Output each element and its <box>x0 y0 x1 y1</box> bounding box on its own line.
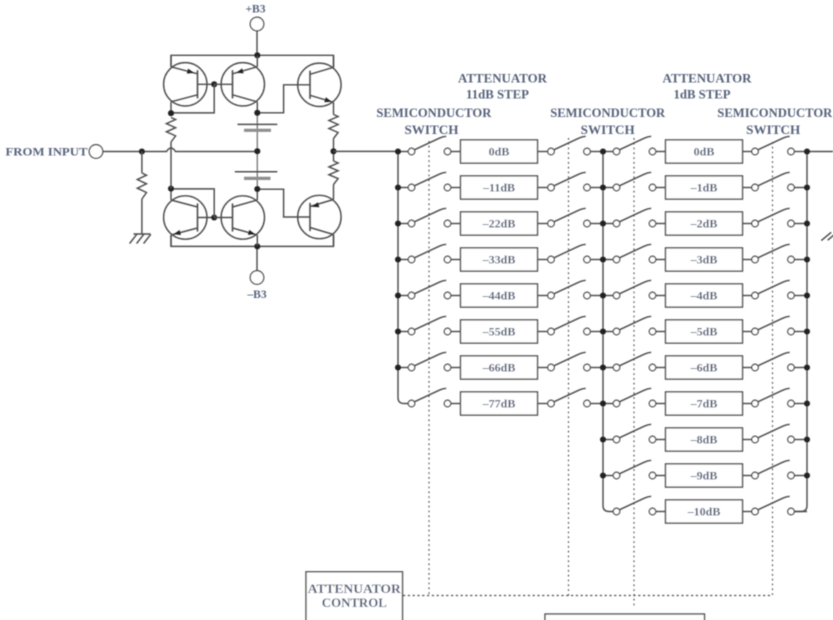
semiconductor switch col1 row4 right <box>548 244 591 263</box>
wire Q5 collector up <box>256 189 258 200</box>
wire col2 row9 pad out <box>743 439 752 441</box>
node left chain bottom <box>168 186 174 192</box>
wire col2 row9 to next bus <box>794 439 807 441</box>
semiconductor switch col1 row2 right <box>548 172 591 191</box>
transistor Q1 <box>164 63 207 106</box>
node bus3 row4 junction <box>804 256 810 262</box>
wire col2 row4 to pad <box>656 259 666 261</box>
wire col1 row4 to pad <box>451 259 461 261</box>
wire col2 row5 pad out <box>743 295 752 297</box>
transistor Q6 <box>298 195 341 238</box>
node left chain top <box>168 110 174 116</box>
wire col2 row1 pad out <box>743 151 752 153</box>
semiconductor switch col2 row11 right <box>752 496 795 515</box>
node battery bottom junction <box>254 186 260 192</box>
wire +B3 to top rail <box>256 31 258 56</box>
semiconductor switch col2 row2 left <box>613 172 656 191</box>
battery B2 positive plate <box>235 171 277 173</box>
semiconductor switch col2 row9 left <box>613 424 656 443</box>
svg-text:–9dB: –9dB <box>690 469 718 483</box>
block bottom partial box <box>545 614 705 620</box>
node bottom base junction <box>211 214 217 220</box>
wire col1 row1 to next bus <box>590 151 603 153</box>
svg-text:–3dB: –3dB <box>690 253 718 267</box>
wire col2 row5 bus stub <box>603 295 613 297</box>
wire resistor to ground <box>141 199 143 234</box>
svg-text:–6dB: –6dB <box>690 361 718 375</box>
node bus3 row7 junction <box>804 364 810 370</box>
wire col2 row9 to pad <box>656 439 666 441</box>
attenuator pad col2 &#8211;2dB <box>666 212 743 235</box>
node col1 row7 bus junction <box>395 364 401 370</box>
svg-text:–4dB: –4dB <box>690 289 718 303</box>
wire col2 row6 to pad <box>656 331 666 333</box>
wire col2 row11 to pad <box>656 511 666 513</box>
node col2 row9 bus junction <box>600 436 606 442</box>
wire col2 row2 to pad <box>656 187 666 189</box>
label ATTENUATOR 11dB STEP <box>458 70 548 101</box>
svg-text:–66dB: –66dB <box>482 361 516 375</box>
wire col2 row4 bus stub <box>603 259 613 261</box>
resistor input shunt <box>137 173 146 199</box>
wire col1 row7 to pad <box>451 367 461 369</box>
node bus3 row5 junction <box>804 292 810 298</box>
svg-text:FROM INPUT: FROM INPUT <box>6 145 88 159</box>
continuation break mark <box>821 232 833 240</box>
svg-text:–8dB: –8dB <box>690 433 718 447</box>
wire Q5 emitter to rail <box>256 235 258 246</box>
node col2 row6 bus junction <box>600 328 606 334</box>
semiconductor switch col2 row3 right <box>752 208 795 227</box>
semiconductor switch col1 row1 right <box>548 136 591 155</box>
node bus3 row10 junction <box>804 472 810 478</box>
svg-text:–2dB: –2dB <box>690 217 718 231</box>
node col2 row1 bus junction <box>600 148 606 154</box>
attenuator pad col2 &#8211;8dB <box>666 428 743 451</box>
wire col2 row8 to next bus <box>794 403 807 405</box>
node bus3 row8 junction <box>804 400 810 406</box>
semiconductor switch col2 row1 right <box>752 136 795 155</box>
attenuator pad col2 &#8211;3dB <box>666 248 743 271</box>
wire col1 row3 pad out <box>538 223 548 225</box>
wire col2 row8 pad out <box>743 403 752 405</box>
resistor output lower <box>329 161 338 185</box>
wire col2 row3 pad out <box>743 223 752 225</box>
wire col2 row6 pad out <box>743 331 752 333</box>
wire Q1 emitter to rail <box>170 56 172 67</box>
node bottom rail junction <box>254 243 260 249</box>
wire col1 row7 to next bus <box>590 367 603 369</box>
control line dashed 3 <box>633 138 635 606</box>
wire Q2 collector down <box>256 102 258 113</box>
svg-text:SWITCH: SWITCH <box>581 122 635 137</box>
control line dashed 2 <box>568 138 570 596</box>
node input junction <box>139 148 145 154</box>
attenuator pad col1 &#8211;77dB <box>461 392 538 415</box>
wire col1 row5 pad out <box>538 295 548 297</box>
attenuator pad col2 &#8211;9dB <box>666 464 743 487</box>
wire col1 row5 bus stub <box>398 295 408 297</box>
control line dashed horizontal <box>403 595 773 597</box>
svg-text:–77dB: –77dB <box>482 397 516 411</box>
semiconductor switch col2 row1 left <box>613 136 656 155</box>
svg-text:–B3: –B3 <box>246 289 266 301</box>
battery B1 negative plate <box>244 129 271 132</box>
node battery top junction <box>254 110 260 116</box>
attenuator pad col2 &#8211;1dB <box>666 176 743 199</box>
wire col1 row1 pad out <box>538 151 548 153</box>
node col1 row1 bus junction <box>395 148 401 154</box>
attenuator pad col2 &#8211;4dB <box>666 284 743 307</box>
wire Q1 base lead <box>198 83 215 85</box>
svg-text:SEMICONDUCTOR: SEMICONDUCTOR <box>550 105 666 120</box>
wire Q4 emitter to rail <box>170 235 172 246</box>
battery B2 negative plate <box>244 177 271 180</box>
wire col1 row4 pad out <box>538 259 548 261</box>
semiconductor switch col1 row8 right <box>548 388 591 407</box>
wire Q6 base lead <box>260 189 311 217</box>
node col1 row4 bus junction <box>395 256 401 262</box>
node output <box>330 148 336 154</box>
semiconductor switch col2 row3 left <box>613 208 656 227</box>
wire col2 row3 bus stub <box>603 223 613 225</box>
attenuator pad col2 &#8211;7dB <box>666 392 743 415</box>
semiconductor switch col1 row2 left <box>408 172 451 191</box>
attenuator pad col2 &#8211;5dB <box>666 320 743 343</box>
semiconductor switch col1 row3 left <box>408 208 451 227</box>
wire lower resistor to Q6 <box>333 185 335 188</box>
semiconductor switch col1 row6 left <box>408 316 451 335</box>
svg-text:SWITCH: SWITCH <box>405 122 459 137</box>
transistor Q4 <box>164 196 207 239</box>
svg-text:SEMICONDUCTOR: SEMICONDUCTOR <box>717 105 833 120</box>
semiconductor switch col2 row5 right <box>752 280 795 299</box>
node col2 row4 bus junction <box>600 256 606 262</box>
semiconductor switch col2 row8 right <box>752 388 795 407</box>
node top rail junction <box>254 52 260 58</box>
wire col2 row1 to next bus <box>794 151 807 153</box>
wire col2 row2 pad out <box>743 187 752 189</box>
svg-text:1dB STEP: 1dB STEP <box>674 87 731 102</box>
semiconductor switch col1 row6 right <box>548 316 591 335</box>
battery B1 positive plate <box>238 123 278 125</box>
wire col2 row6 bus stub <box>603 331 613 333</box>
semiconductor switch col1 row7 right <box>548 352 591 371</box>
svg-text:SWITCH: SWITCH <box>746 122 800 137</box>
semiconductor switch col2 row7 right <box>752 352 795 371</box>
wire col1 row6 to next bus <box>590 331 603 333</box>
terminal +B3 <box>250 17 264 31</box>
node bus3 row2 junction <box>804 184 810 190</box>
node bus3 row1 junction <box>804 148 810 154</box>
wire col2 row7 pad out <box>743 367 752 369</box>
svg-text:–11dB: –11dB <box>482 181 515 195</box>
attenuator pad col2 &#8211;6dB <box>666 356 743 379</box>
node col2 row2 bus junction <box>600 184 606 190</box>
svg-text:–22dB: –22dB <box>482 217 516 231</box>
control line dashed 1 <box>428 141 430 596</box>
wire col2 row11 to next bus <box>794 511 807 513</box>
transistor Q3 <box>298 63 341 106</box>
wire col2 row1 bus stub <box>603 151 613 153</box>
wire Q3 base lead <box>260 85 311 113</box>
wire Q4 collector up <box>170 189 172 200</box>
svg-text:–5dB: –5dB <box>690 325 718 339</box>
attenuator pad col2 0dB <box>666 140 743 163</box>
node bus3 row6 junction <box>804 328 810 334</box>
wire col2 row9 bus stub <box>603 439 613 441</box>
attenuator pad col1 &#8211;55dB <box>461 320 538 343</box>
wire col2 row2 bus stub <box>603 187 613 189</box>
wire col1 row2 pad out <box>538 187 548 189</box>
semiconductor switch col2 row6 left <box>613 316 656 335</box>
control line dashed 4 <box>772 142 774 596</box>
svg-text:SEMICONDUCTOR: SEMICONDUCTOR <box>376 105 492 120</box>
wire col2 row8 to pad <box>656 403 666 405</box>
svg-text:0dB: 0dB <box>694 145 715 159</box>
semiconductor switch col2 row10 right <box>752 460 795 479</box>
attenuator pad col1 0dB <box>461 140 538 163</box>
wire input horizontal with crossover hop <box>103 148 257 152</box>
semiconductor switch col2 row4 right <box>752 244 795 263</box>
wire col2 row7 to pad <box>656 367 666 369</box>
svg-text:–33dB: –33dB <box>482 253 516 267</box>
wire Q2 emitter to rail <box>256 56 258 67</box>
attenuator pad col1 &#8211;22dB <box>461 212 538 235</box>
wire to ground resistor <box>141 152 143 174</box>
wire col2 row7 bus stub <box>603 367 613 369</box>
node col1 row5 bus junction <box>395 292 401 298</box>
wire col1 row5 to next bus <box>590 295 603 297</box>
node battery mid junction <box>254 148 260 154</box>
wire col1 row6 bus stub <box>398 331 408 333</box>
wire col1 row4 to next bus <box>590 259 603 261</box>
label SEMICONDUCTOR SWITCH col3 <box>717 105 833 137</box>
svg-text:–44dB: –44dB <box>482 289 516 303</box>
wire col2 row3 to next bus <box>794 223 807 225</box>
svg-text:ATTENUATOR: ATTENUATOR <box>663 70 753 85</box>
wire upper resistor to node <box>333 139 335 162</box>
svg-text:ATTENUATOR: ATTENUATOR <box>308 581 402 596</box>
attenuator pad col1 &#8211;11dB <box>461 176 538 199</box>
svg-text:CONTROL: CONTROL <box>322 595 387 610</box>
wire col2 row5 to next bus <box>794 295 807 297</box>
node col2 row3 bus junction <box>600 220 606 226</box>
wire col2 row7 to next bus <box>794 367 807 369</box>
wire col2 row10 to pad <box>656 475 666 477</box>
block ATTENUATOR CONTROL <box>306 572 403 620</box>
semiconductor switch col2 row8 left <box>613 388 656 407</box>
wire col2 row3 to pad <box>656 223 666 225</box>
semiconductor switch col2 row10 left <box>613 460 656 479</box>
wire base tie to left node <box>171 84 214 113</box>
semiconductor switch col2 row11 left <box>613 496 656 515</box>
semiconductor switch col1 row3 right <box>548 208 591 227</box>
node col2 row5 bus junction <box>600 292 606 298</box>
wire col2 row1 to pad <box>656 151 666 153</box>
wire col1 row2 bus stub <box>398 187 408 189</box>
wire col1 row4 bus stub <box>398 259 408 261</box>
svg-text:–7dB: –7dB <box>690 397 718 411</box>
svg-text:ATTENUATOR: ATTENUATOR <box>458 70 548 85</box>
wire col1 row6 to pad <box>451 331 461 333</box>
terminal -B3 <box>250 271 264 285</box>
wire battery column <box>256 113 258 189</box>
wire col2 row10 to next bus <box>794 475 807 477</box>
wire col1 row2 to next bus <box>590 187 603 189</box>
wire Q3 emitter down <box>333 102 335 114</box>
wire col2 row11 pad out <box>743 511 752 513</box>
wire Q5 base lead <box>214 217 232 219</box>
label ATTENUATOR 1dB STEP <box>663 70 753 101</box>
attenuator pad col1 &#8211;66dB <box>461 356 538 379</box>
resistor left bias <box>166 118 175 143</box>
wire -B3 to bottom rail <box>256 246 258 270</box>
wire col1 row5 to pad <box>451 295 461 297</box>
wire col2 row10 pad out <box>743 475 752 477</box>
wire col2 row6 to next bus <box>794 331 807 333</box>
svg-text:–55dB: –55dB <box>482 325 516 339</box>
wire Q6 collector to rail <box>333 235 335 246</box>
semiconductor switch col2 row9 right <box>752 424 795 443</box>
wire col2 row5 to pad <box>656 295 666 297</box>
attenuator pad col2 &#8211;10dB <box>666 500 743 523</box>
semiconductor switch col1 row8 left <box>408 388 451 407</box>
svg-text:–10dB: –10dB <box>687 505 721 519</box>
resistor output upper <box>329 115 338 139</box>
wire col1 row6 pad out <box>538 331 548 333</box>
semiconductor switch col1 row5 left <box>408 280 451 299</box>
node col2 row7 bus junction <box>600 364 606 370</box>
label SEMICONDUCTOR SWITCH col1 <box>376 105 492 137</box>
node col1 row2 bus junction <box>395 184 401 190</box>
wire bottom rail <box>171 235 334 247</box>
attenuator pad col1 &#8211;33dB <box>461 248 538 271</box>
node bus3 row3 junction <box>804 220 810 226</box>
semiconductor switch col1 row1 left <box>408 136 451 155</box>
svg-text:+B3: +B3 <box>246 3 266 15</box>
svg-text:–1dB: –1dB <box>690 181 718 195</box>
wire col1 row1 to pad <box>451 151 461 153</box>
transistor Q2 <box>221 63 264 106</box>
node bus3 row9 junction <box>804 436 810 442</box>
wire col1 row7 pad out <box>538 367 548 369</box>
wire Q4 base lead <box>198 217 215 219</box>
node col1 row3 bus junction <box>395 220 401 226</box>
wire bus3 to edge <box>807 151 833 153</box>
svg-text:0dB: 0dB <box>489 145 510 159</box>
wire col2 row10 bus stub <box>603 475 613 477</box>
node top base junction <box>211 81 217 87</box>
wire Q3 collector to rail <box>333 56 335 67</box>
semiconductor switch col2 row2 right <box>752 172 795 191</box>
wire col1 row7 bus stub <box>398 367 408 369</box>
transistor Q5 <box>221 196 264 239</box>
semiconductor switch col1 row7 left <box>408 352 451 371</box>
wire switch bus 2 <box>603 152 613 512</box>
wire output to switch bus <box>334 150 399 152</box>
input terminal FROM INPUT <box>89 145 103 159</box>
wire Q6 emitter up <box>333 187 335 199</box>
svg-text:11dB STEP: 11dB STEP <box>466 87 529 102</box>
wire col1 row8 pad out <box>538 403 548 405</box>
wire col2 row4 to next bus <box>794 259 807 261</box>
node col1 row6 bus junction <box>395 328 401 334</box>
wire switch bus 1 <box>398 152 408 404</box>
node col2 row8 bus junction <box>600 400 606 406</box>
semiconductor switch col2 row6 right <box>752 316 795 335</box>
wire col2 row4 pad out <box>743 259 752 261</box>
label SEMICONDUCTOR SWITCH col2 <box>550 105 666 137</box>
wire top rail <box>171 55 334 67</box>
wire col1 row2 to pad <box>451 187 461 189</box>
wire base tie to left node <box>171 189 214 218</box>
wire switch bus 3 <box>794 152 807 512</box>
wire col2 row2 to next bus <box>794 187 807 189</box>
node col2 row10 bus junction <box>600 472 606 478</box>
wire col1 row1 bus stub <box>398 151 408 153</box>
semiconductor switch col2 row4 left <box>613 244 656 263</box>
wire col1 row8 to next bus <box>590 403 603 405</box>
semiconductor switch col1 row4 left <box>408 244 451 263</box>
semiconductor switch col2 row7 left <box>613 352 656 371</box>
wire col2 row8 bus stub <box>603 403 613 405</box>
wire Q1 collector down <box>170 102 172 113</box>
wire left chain lower <box>170 142 172 189</box>
wire col1 row3 bus stub <box>398 223 408 225</box>
wire col1 row3 to next bus <box>590 223 603 225</box>
attenuator pad col1 &#8211;44dB <box>461 284 538 307</box>
wire col1 row8 to pad <box>451 403 461 405</box>
wire Q2 base lead <box>214 83 232 85</box>
semiconductor switch col1 row5 right <box>548 280 591 299</box>
semiconductor switch col2 row5 left <box>613 280 656 299</box>
wire col1 row3 to pad <box>451 223 461 225</box>
ground chassis symbol <box>130 234 151 244</box>
